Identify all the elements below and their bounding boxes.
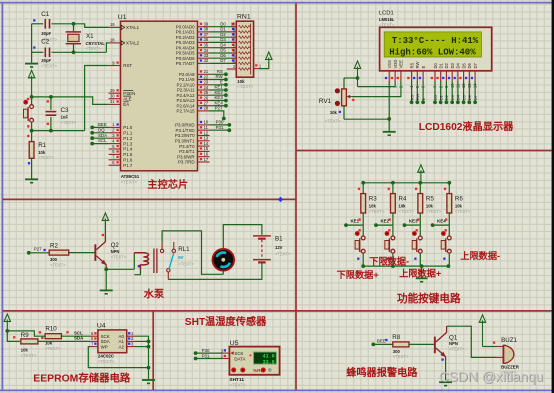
svg-text:<TEXT>: <TEXT>	[399, 209, 415, 214]
svg-text:<TEXT>: <TEXT>	[98, 359, 115, 364]
indicator U5 display	[250, 355, 252, 357]
indicator pot wiper	[352, 99, 354, 101]
capacitor C2	[32, 39, 107, 69]
node keys rail	[361, 181, 365, 185]
wire LCD D2 down	[445, 81, 447, 102]
U1 pin 22 P2.1/A9	[179, 74, 210, 82]
svg-text:P0.4/AD4: P0.4/AD4	[176, 45, 195, 50]
node keys bottom rail	[361, 264, 365, 268]
node D0 lcd	[433, 100, 437, 104]
svg-text:P1.7: P1.7	[123, 163, 133, 168]
crystal X1	[66, 32, 106, 51]
svg-text:D7: D7	[220, 58, 226, 63]
svg-text:AT89C51: AT89C51	[121, 174, 140, 179]
resistor R10	[45, 326, 61, 352]
svg-text:BEE: BEE	[377, 339, 386, 344]
LCD pin 11 D4	[454, 62, 461, 88]
LCD pin 7 D0	[431, 62, 438, 88]
svg-text:P0.3/AD3: P0.3/AD3	[176, 40, 195, 45]
svg-text:10k: 10k	[426, 204, 434, 209]
U5 button 2	[240, 368, 245, 373]
node C3 bottom	[49, 129, 53, 133]
svg-text:U4: U4	[97, 322, 106, 329]
wire LCD D7 down	[474, 81, 476, 102]
svg-text:33.0: 33.0	[263, 359, 275, 365]
indicator rail	[27, 135, 29, 137]
wire Q1 collector to buzzer	[447, 326, 497, 357]
wire LCD D6 down	[468, 81, 470, 102]
wire LCD VDD to power rail	[358, 81, 396, 87]
MCU U1 AT89C51 body	[121, 21, 198, 171]
wire SDA to P1	[92, 137, 108, 139]
svg-text:10k: 10k	[21, 347, 29, 352]
indicator RV1	[339, 111, 341, 113]
LCD pin 9 D2	[442, 62, 449, 88]
svg-text:P3.5/T1: P3.5/T1	[179, 149, 195, 154]
svg-text:EEPROM存储器电路: EEPROM存储器电路	[33, 371, 131, 384]
node P27 source	[27, 251, 31, 255]
svg-text:C3: C3	[61, 107, 69, 114]
indicator KE2 label	[388, 218, 390, 220]
RN1 pin 10	[231, 22, 251, 28]
U1 pin 2 P1.1	[109, 128, 133, 136]
node D7 lcd	[473, 100, 477, 104]
U4 pin 7 WP	[89, 341, 108, 349]
resistor R2	[49, 243, 68, 268]
node VSS pot junction	[387, 117, 391, 121]
wire R10 lead left	[41, 335, 46, 337]
indicator R9 right	[41, 337, 43, 339]
svg-text:P2.4/A12: P2.4/A12	[177, 93, 196, 98]
node keys bottom rail	[420, 264, 424, 268]
U1 pin 1 P1.0	[109, 122, 133, 130]
svg-text:<TEXT>: <TEXT>	[50, 262, 66, 267]
EEPROM U4 24C02C body	[98, 330, 127, 353]
svg-text:R8: R8	[392, 334, 400, 341]
svg-text:LCD1602液晶显示器: LCD1602液晶显示器	[419, 120, 514, 133]
indicator KE1 label	[358, 218, 360, 220]
svg-text:D5: D5	[461, 62, 466, 68]
indicator P27 pump	[43, 249, 45, 251]
svg-text:28: 28	[204, 106, 209, 111]
svg-text:DATA: DATA	[234, 356, 245, 361]
svg-text:Q2: Q2	[111, 242, 120, 249]
svg-text:SCK: SCK	[234, 351, 243, 356]
section divider vertical center	[295, 4, 297, 391]
svg-text:D1: D1	[220, 27, 226, 32]
U1 pin 33 P0.6/AD6	[176, 53, 210, 61]
node keys bottom rail	[447, 264, 451, 268]
U1 pin 34 P0.5/AD5	[176, 48, 210, 56]
wire LCD E down	[422, 81, 424, 102]
wire BEE to P1	[92, 126, 108, 128]
wire KE4 from P2	[210, 105, 226, 107]
RN1 pin 1	[254, 64, 262, 69]
svg-text:P2.1/A9: P2.1/A9	[179, 77, 195, 82]
U1 pin 14 P3.4/T0	[179, 141, 209, 149]
ground below Q1	[439, 382, 452, 385]
U1 pin 11 P3.1/TXD	[176, 125, 210, 133]
wire Q1 emitter to ground	[445, 360, 447, 381]
node RS	[224, 72, 228, 76]
U5 dot grey	[268, 368, 272, 372]
wire LCD VSS to ground	[388, 81, 390, 131]
svg-text:D0: D0	[433, 94, 438, 100]
svg-text:3: 3	[112, 133, 115, 138]
svg-text:VSS: VSS	[387, 60, 392, 69]
svg-text:CRYSTAL: CRYSTAL	[86, 41, 106, 46]
wire emitter to relay coil riser	[106, 268, 134, 270]
indicator Q2 collector	[102, 234, 104, 236]
resistor R1	[29, 131, 54, 179]
svg-text:3: 3	[221, 348, 224, 353]
wire KE4	[433, 224, 450, 226]
buzzer BUZ1	[497, 345, 514, 363]
svg-text:7: 7	[91, 341, 94, 346]
svg-text:12: 12	[204, 130, 209, 135]
svg-text:WP: WP	[101, 344, 108, 349]
U1 pin 15 P3.5/T1	[179, 146, 209, 154]
wire keys top rail	[363, 182, 449, 184]
U1 pin 35 P0.4/AD4	[176, 43, 210, 51]
indicator R1 bottom	[28, 162, 30, 164]
transistor Q2	[94, 236, 106, 269]
wire to R9	[7, 331, 20, 342]
svg-text:4: 4	[112, 138, 115, 143]
svg-text:P27: P27	[34, 247, 42, 252]
wire D5 P0 to RN1	[210, 52, 237, 54]
U1 pin 3 P1.2	[109, 133, 133, 141]
wire P31 from P3	[210, 129, 230, 131]
U1 pin 17 P3.7/RD	[178, 157, 209, 165]
svg-text:<TEXT>: <TEXT>	[229, 383, 246, 388]
svg-text:7: 7	[112, 155, 115, 160]
indicator C3 bottom	[47, 123, 49, 125]
RN1 pin 4	[231, 53, 250, 59]
indicator C1 left	[33, 19, 35, 21]
wire LCD D3 down	[451, 81, 453, 102]
wire motor top to battery	[223, 225, 262, 249]
svg-text:2: 2	[112, 128, 115, 133]
battery B1	[253, 236, 271, 263]
wire RN1 pin1 to power	[260, 60, 269, 68]
LCD pin 10 D3	[448, 62, 455, 88]
wire to R10	[7, 331, 40, 336]
svg-text:R2: R2	[50, 243, 58, 250]
svg-text:P0.1/AD1: P0.1/AD1	[176, 30, 195, 35]
svg-text:P1.3: P1.3	[123, 141, 133, 146]
svg-text:29: 29	[110, 88, 115, 93]
wire R2 to Q2 base	[69, 252, 95, 254]
wire RST to rail	[85, 66, 109, 131]
wire VCC rail to EA	[32, 97, 109, 105]
U1 pin 29 PSEN	[109, 88, 136, 96]
node RW	[224, 78, 228, 82]
node KE3	[403, 223, 407, 227]
wire R9 to U4 SDA	[38, 340, 89, 342]
U1 pin 6 P1.5	[109, 149, 133, 157]
svg-text:D6: D6	[467, 94, 472, 100]
wire crystal bottom stub	[73, 44, 75, 53]
U1 pin 24 P2.3/A11	[177, 85, 210, 93]
svg-text:D1: D1	[439, 94, 444, 100]
node C3 top	[49, 95, 53, 99]
svg-text:C1: C1	[41, 11, 49, 18]
wire LCD D0 down	[434, 81, 436, 102]
node P31 sht	[194, 357, 198, 361]
wire R10 to U4 SCK	[61, 335, 89, 337]
RN1 pin 9	[231, 27, 250, 33]
U5 button 1	[231, 368, 236, 373]
svg-text:10k: 10k	[399, 204, 407, 209]
U1 pin 27 P2.6/A14	[177, 101, 210, 109]
LCD pin 3 VEE	[397, 60, 404, 88]
wire motor bottom stub	[222, 271, 224, 274]
svg-text:<TEXT>: <TEXT>	[38, 155, 54, 160]
svg-text:P1.5: P1.5	[123, 152, 133, 157]
wire U4 A0 A1 A2 rail	[136, 336, 149, 379]
svg-text:KE3: KE3	[409, 219, 418, 224]
U5 display	[254, 352, 277, 365]
svg-text:上限数据-: 上限数据-	[460, 250, 500, 261]
U1 pin 31 EA	[109, 99, 130, 107]
svg-text:XTAL2: XTAL2	[126, 41, 140, 46]
ground below C2 rail	[25, 64, 38, 67]
svg-text:<TEXT>: <TEXT>	[393, 354, 409, 359]
indicator KE4 label	[445, 218, 447, 220]
indicator R3 top	[358, 188, 360, 190]
push button reset	[23, 97, 33, 131]
wire D2 P0 to RN1	[210, 36, 237, 38]
svg-text:10k: 10k	[330, 110, 338, 115]
svg-text:14: 14	[204, 141, 209, 146]
LCD pin 5 RW	[413, 62, 420, 88]
power terminal RN1	[266, 52, 272, 60]
wire P30 from P3	[210, 124, 230, 126]
svg-text:<TEXT>: <TEXT>	[41, 63, 57, 68]
U1 pin 37 P0.2/AD2	[176, 32, 210, 40]
svg-text:8: 8	[112, 160, 115, 165]
svg-text:D7: D7	[473, 94, 478, 100]
svg-text:<TEXT>: <TEXT>	[455, 209, 471, 214]
U1 pin 7 P1.6	[109, 155, 133, 163]
svg-text:D2: D2	[444, 94, 449, 100]
node KE1	[344, 223, 348, 227]
U1 pin 4 P1.3	[109, 138, 133, 146]
wire keys ground stem	[421, 266, 423, 278]
svg-text:D4: D4	[456, 62, 461, 68]
svg-text:XTAL1: XTAL1	[126, 25, 140, 30]
indicator Q1 emitter	[441, 358, 443, 360]
node KE4	[431, 223, 435, 227]
node BEE buzzer	[371, 343, 375, 347]
svg-text:PSEN: PSEN	[123, 91, 135, 96]
motor pump	[213, 249, 235, 271]
svg-text:32: 32	[204, 58, 209, 63]
indicator key KE2 bottom	[387, 258, 389, 260]
wire to XTAL2	[106, 43, 108, 52]
svg-text:25: 25	[204, 90, 209, 95]
node keys rail	[391, 181, 395, 185]
svg-text:P1.0: P1.0	[123, 125, 133, 130]
U1 pin 13 P3.3/INT1	[175, 136, 210, 144]
U1 pin 5 P1.4	[109, 144, 133, 152]
U1 pin 21 P2.0/A8	[179, 69, 210, 77]
wire P31 to U5 DATA	[196, 358, 223, 360]
U1 pin 28 P2.7/A15	[177, 106, 210, 114]
node Q2 emitter	[104, 267, 108, 271]
node E lcd	[421, 100, 425, 104]
U4 pin 1 A0	[119, 331, 136, 339]
LCD pin 12 D5	[459, 62, 466, 88]
wire U4 WP down-around	[88, 347, 148, 368]
wire LCD RW down	[416, 81, 418, 102]
wire crystal top stub	[73, 24, 75, 32]
svg-text:NPN: NPN	[449, 341, 458, 346]
svg-text:R6: R6	[455, 196, 463, 203]
node E	[224, 83, 228, 87]
svg-text:R1: R1	[38, 142, 46, 149]
U4 pin 3 A2	[119, 341, 136, 349]
node keys rail	[418, 181, 422, 185]
svg-text:RW: RW	[415, 62, 420, 69]
svg-text:RS: RS	[409, 94, 414, 100]
wire E from P2	[210, 84, 226, 86]
svg-text:C2: C2	[41, 39, 49, 46]
U1 pin 39 P0.0/AD0	[176, 22, 210, 30]
LCD pin 6 E	[419, 66, 426, 89]
svg-text:6: 6	[112, 149, 115, 154]
marker diamond on divider	[278, 197, 283, 203]
U5 pin 2 DATA	[221, 354, 246, 362]
resistor pack RN1 body	[236, 21, 253, 77]
svg-text:P27: P27	[215, 106, 223, 111]
node VCC rail	[30, 95, 34, 99]
wire pot top to power stem	[344, 77, 358, 79]
node D2 lcd	[445, 100, 449, 104]
wire D1 P0 to RN1	[210, 31, 237, 33]
svg-text:D3: D3	[450, 94, 455, 100]
power terminal Q2	[102, 213, 108, 222]
ground keys	[416, 278, 428, 281]
node KE2	[224, 93, 228, 97]
svg-text:U1: U1	[118, 14, 127, 21]
svg-text:12V: 12V	[275, 245, 283, 250]
svg-text:D4: D4	[456, 94, 461, 100]
svg-text:R3: R3	[369, 196, 377, 203]
svg-text:300: 300	[50, 257, 58, 262]
svg-text:RW: RW	[216, 74, 224, 79]
svg-text:1: 1	[112, 122, 115, 127]
svg-text:D1: D1	[439, 62, 444, 68]
svg-text:P3.0/RXD: P3.0/RXD	[175, 123, 195, 128]
svg-text:SDA: SDA	[74, 336, 84, 341]
svg-text:下限数据-: 下限数据-	[369, 256, 409, 267]
capacitor C3	[46, 97, 77, 131]
wire BEE to R8	[373, 343, 393, 345]
svg-text:<TEXT>: <TEXT>	[121, 179, 138, 184]
svg-text:10k: 10k	[38, 150, 46, 155]
ground top-left reset area	[28, 70, 34, 97]
node D1 lcd	[439, 100, 443, 104]
node KE4	[224, 104, 228, 108]
svg-text:<TEXT>: <TEXT>	[178, 262, 194, 267]
svg-text:KE4: KE4	[437, 219, 446, 224]
svg-text:D7: D7	[473, 62, 478, 68]
indicator BEE	[385, 339, 387, 341]
svg-text:30pF: 30pF	[41, 31, 51, 36]
wire D0 P0 to RN1	[210, 26, 237, 28]
potentiometer RV1	[335, 78, 352, 119]
svg-text:1: 1	[259, 64, 262, 69]
relay lever	[169, 253, 174, 269]
svg-text:5: 5	[112, 144, 115, 149]
wire pot bottom to VSS	[344, 118, 389, 120]
section divider bottom horizontal	[3, 310, 552, 312]
svg-text:D4: D4	[220, 42, 226, 47]
indicator button bottom	[27, 125, 29, 127]
svg-text:R9: R9	[21, 332, 29, 339]
LCD pin 8 D1	[436, 62, 443, 88]
transistor Q1	[434, 326, 447, 360]
capacitor C1	[32, 11, 74, 42]
node EEPROM power	[5, 329, 9, 333]
svg-text:D3: D3	[220, 37, 226, 42]
svg-text:NPN: NPN	[111, 249, 120, 254]
indicator relay coil	[138, 265, 140, 267]
LCD pin 4 RS	[407, 62, 414, 88]
node A1 rail	[147, 340, 151, 344]
node WP rail	[147, 366, 151, 370]
LCD pin 1 VSS	[385, 60, 392, 88]
svg-text:RN1: RN1	[237, 14, 251, 21]
wire D3 P0 to RN1	[210, 41, 237, 43]
section divider left horizontal	[3, 198, 297, 200]
svg-text:RW: RW	[415, 93, 420, 100]
wire A1 to rail	[136, 340, 149, 342]
svg-text:P3.7/RD: P3.7/RD	[178, 160, 195, 165]
U1 pin 23 P2.2/A10	[177, 80, 210, 88]
node power pot	[356, 76, 360, 80]
indicator C2 left	[33, 46, 35, 48]
svg-text:<TEXT>: <TEXT>	[111, 254, 127, 259]
wire left rail C1-C2	[31, 24, 33, 63]
push button key KE2	[385, 225, 395, 266]
U1 pin 9 RST	[109, 60, 133, 68]
svg-text:P3.1/TXD: P3.1/TXD	[176, 128, 195, 133]
svg-text:VDD: VDD	[393, 60, 398, 69]
relay contact common terminal	[167, 269, 170, 280]
wire KE3	[405, 224, 421, 226]
indicator KE3 label	[417, 218, 419, 220]
node RS lcd	[410, 100, 414, 104]
svg-text:P3.2/INT0: P3.2/INT0	[175, 133, 195, 138]
node C1-X1	[72, 22, 76, 26]
svg-text:High:60% LOW:40%: High:60% LOW:40%	[389, 48, 476, 58]
svg-text:P3.6/WR: P3.6/WR	[177, 154, 195, 159]
U1 pin 8 P1.7	[109, 160, 133, 168]
svg-text:上限数据+: 上限数据+	[399, 268, 441, 279]
wire RST node rail	[32, 130, 85, 132]
svg-text:A2: A2	[119, 344, 125, 349]
wire KE3 from P2	[210, 100, 226, 102]
svg-text:R4: R4	[399, 196, 407, 203]
wire D7 P0 to RN1	[210, 62, 237, 64]
wire keys bottom rail	[363, 265, 448, 267]
indicator key KE3 bottom	[414, 258, 416, 260]
node button bottom	[30, 129, 34, 133]
wire D4 P0 to RN1	[210, 47, 237, 49]
